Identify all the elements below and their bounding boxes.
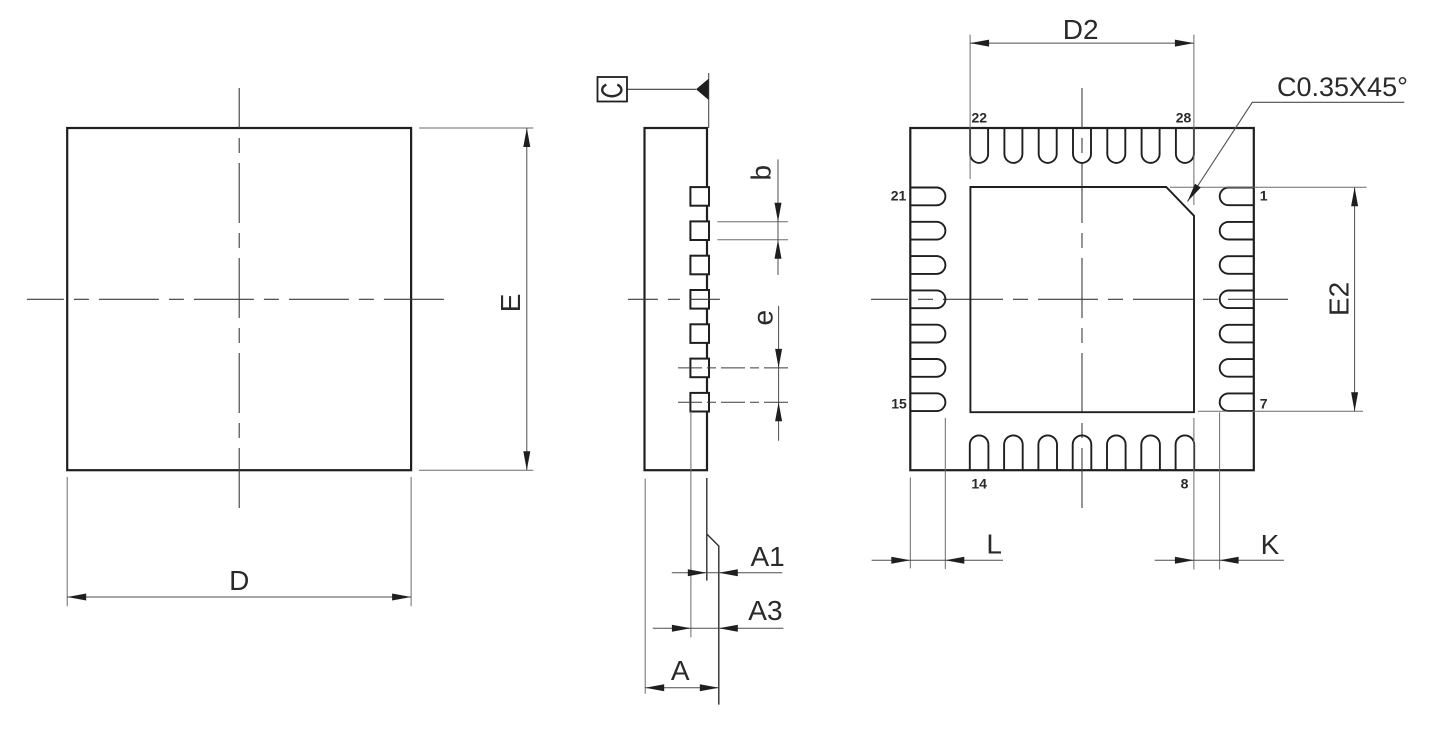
svg-text:8: 8	[1181, 476, 1189, 492]
bottom view package outline	[910, 128, 1254, 470]
dimension K line	[1155, 557, 1284, 564]
side view terminal 7	[690, 393, 709, 412]
svg-text:22: 22	[972, 110, 988, 126]
pad pin 6	[1220, 359, 1254, 377]
top view horizontal centerline	[27, 298, 452, 300]
exposed pad with chamfer	[970, 187, 1194, 412]
svg-text:21: 21	[891, 188, 907, 204]
bottom view vertical centerline	[1081, 88, 1083, 511]
svg-text:L: L	[986, 529, 1002, 560]
pad pin 2	[1220, 222, 1254, 240]
pad pin 25	[1073, 128, 1091, 163]
pad pin 15	[910, 393, 945, 411]
pad pin 7	[1220, 393, 1254, 411]
dimension L line	[872, 557, 1003, 564]
side view terminal 6	[690, 359, 709, 378]
svg-text:E2: E2	[1324, 282, 1355, 316]
pad pin 4	[1220, 291, 1254, 309]
pad pin 9	[1141, 435, 1160, 470]
pad pin 14	[970, 435, 989, 470]
pad pin 11	[1073, 435, 1092, 470]
dimension D2 extension lines	[970, 35, 1194, 205]
pad pin 10	[1107, 435, 1126, 470]
top view package body	[67, 128, 411, 470]
terminal 6 centerline extension	[678, 367, 789, 369]
pad pin 19	[910, 256, 945, 274]
dimension L extension lines	[910, 418, 945, 569]
dimension D2 line	[970, 40, 1194, 47]
svg-text:A: A	[671, 655, 690, 686]
pad pin 26	[1107, 128, 1125, 163]
svg-text:15: 15	[891, 396, 907, 412]
bottom view horizontal centerline	[871, 298, 1295, 300]
side view terminal 5	[690, 324, 709, 343]
pad pin 21	[910, 188, 945, 206]
pad pin 1	[1220, 188, 1254, 206]
pad pin 5	[1220, 325, 1254, 343]
datum C leader	[627, 88, 696, 90]
side view horizontal centerline	[628, 298, 722, 300]
svg-text:A3: A3	[748, 595, 782, 626]
svg-text:1: 1	[1260, 188, 1268, 204]
svg-text:e: e	[748, 310, 779, 326]
svg-text:D2: D2	[1063, 14, 1099, 45]
body left edge extension line	[644, 479, 646, 694]
pad pin 3	[1220, 256, 1254, 274]
dimension E line	[523, 128, 530, 470]
pad pin 24	[1039, 128, 1057, 163]
svg-text:7: 7	[1260, 396, 1268, 412]
svg-text:D: D	[229, 565, 249, 596]
dimension A1 line	[672, 569, 783, 576]
datum C frame	[598, 77, 628, 102]
pad pin 23	[1004, 128, 1022, 163]
side view package body	[645, 128, 708, 470]
pad pin 27	[1142, 128, 1160, 163]
dimension b line	[775, 159, 782, 275]
pad pin 13	[1004, 435, 1023, 470]
dimension E2 line	[1351, 187, 1358, 411]
dimension b extension lines	[717, 222, 788, 240]
pad pin 20	[910, 222, 945, 240]
side view terminal 3	[690, 256, 709, 275]
side view terminal 2	[690, 221, 709, 240]
pad pin 12	[1038, 435, 1057, 470]
chamfer note leader	[1188, 102, 1405, 201]
datum C letter	[602, 85, 621, 97]
svg-text:A1: A1	[751, 541, 785, 572]
terminal inner edge extension line	[690, 412, 692, 638]
pad pin 8	[1176, 435, 1195, 470]
dimension D line	[67, 594, 411, 601]
datum C extension line	[708, 73, 710, 128]
lead profile line	[707, 478, 719, 705]
dimension e line	[775, 306, 782, 441]
datum C triangle	[696, 79, 709, 100]
top view vertical centerline	[238, 88, 240, 510]
svg-text:b: b	[746, 165, 777, 181]
svg-text:C0.35X45°: C0.35X45°	[1277, 72, 1408, 102]
terminal 7 centerline extension	[678, 401, 789, 403]
svg-text:14: 14	[971, 476, 987, 492]
dimension E extension lines	[419, 128, 533, 470]
side view terminal 4	[690, 290, 709, 309]
svg-text:K: K	[1261, 529, 1280, 560]
pad pin 16	[910, 359, 945, 377]
pad pin 18	[910, 290, 945, 308]
svg-text:28: 28	[1176, 110, 1192, 126]
dimension D extension lines	[67, 477, 411, 606]
svg-text:E: E	[495, 294, 526, 313]
pad pin 22	[970, 128, 988, 163]
dimension K extension lines	[1194, 412, 1220, 569]
dimension A line	[645, 684, 719, 691]
side view terminal 1	[690, 187, 709, 206]
pad pin 17	[910, 325, 945, 343]
pad pin 28	[1176, 128, 1194, 163]
dimension A3 line	[653, 625, 784, 632]
dimension E2 extension lines	[1170, 187, 1367, 411]
